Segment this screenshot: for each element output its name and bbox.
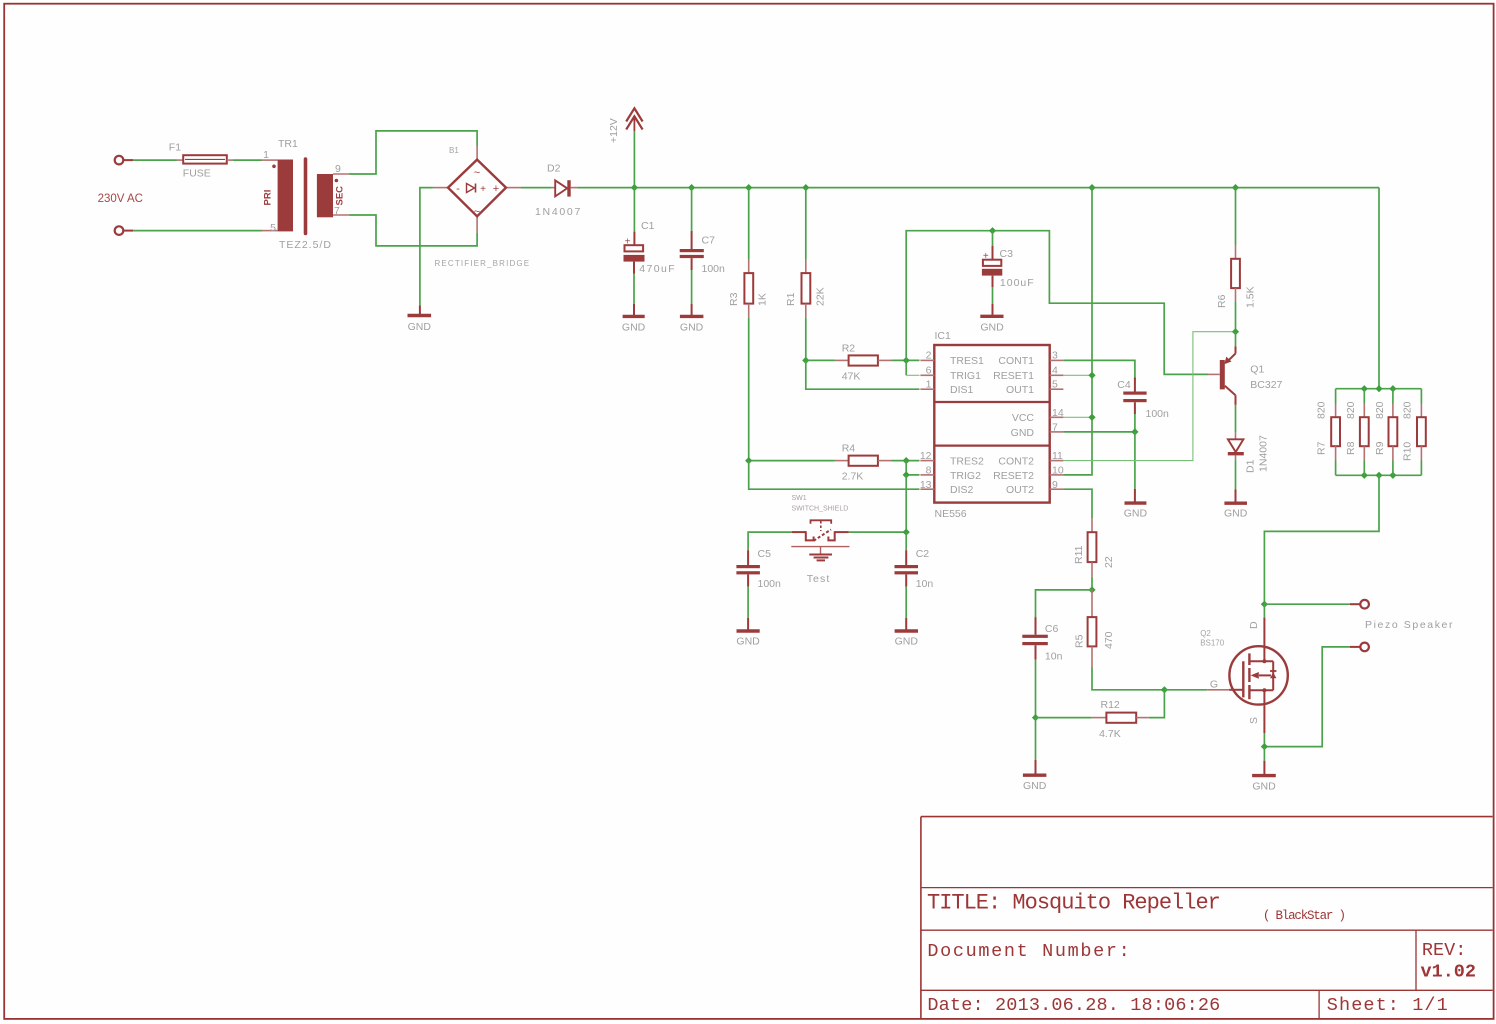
junction bottom bus R9 [1389,472,1396,479]
capacitor C4 [1117,378,1169,421]
svg-text:4: 4 [1052,365,1058,377]
wire junction to TRIG1 pin6 [905,360,907,375]
resistor R2 [835,343,892,383]
svg-text:GND: GND [1011,427,1035,439]
svg-text:10n: 10n [1045,651,1063,663]
terminal speaker 1 [1350,600,1369,609]
svg-text:OUT2: OUT2 [1006,484,1034,496]
wire D2 to rail [578,187,635,189]
svg-text:470uF: 470uF [639,263,676,275]
junction speaker1 [1261,601,1268,608]
junction C6-R12 [1032,714,1039,721]
junction R3-R4 [745,457,752,464]
wire pin7 to C4 vertical [1063,431,1135,433]
svg-text:Test: Test [807,573,831,585]
svg-text:820: 820 [1345,401,1357,419]
svg-text:R11: R11 [1073,545,1085,564]
junction C4-pin7 [1131,428,1138,435]
svg-text:4.7K: 4.7K [1099,728,1121,740]
junction pin14 [1088,414,1095,421]
svg-text:D: D [1248,621,1260,629]
junction top bus R9 [1389,385,1396,392]
svg-text:Document Number:: Document Number: [927,941,1131,962]
junction top bus feed [1375,385,1382,392]
svg-text:GND: GND [1124,508,1148,520]
junction C3 top [989,227,996,234]
junction R1-R2 [802,357,809,364]
resistor R10 [1402,389,1426,476]
wire C7 to gnd [691,270,693,304]
svg-text:GND: GND [980,322,1004,334]
svg-text:Q2: Q2 [1200,629,1211,638]
ground Q2 [1252,761,1276,793]
svg-text:CONT1: CONT1 [998,355,1034,367]
svg-text:RESET2: RESET2 [993,470,1034,482]
svg-text:TRIG1: TRIG1 [950,370,981,382]
transformer TR1 [262,138,349,251]
wire bank bottom to speaker junction [1264,475,1379,604]
svg-text:3: 3 [1052,350,1058,362]
svg-text:6: 6 [926,365,932,377]
svg-text:9: 9 [335,163,341,175]
pin 7 GND [1011,422,1064,440]
svg-text:230V AC: 230V AC [98,193,143,205]
wire pin4 to vertical [1063,374,1092,376]
svg-text:Piezo Speaker: Piezo Speaker [1365,619,1454,631]
svg-text:REV:: REV: [1422,940,1466,961]
svg-text:TRES1: TRES1 [950,355,984,367]
svg-text:GND: GND [1224,508,1248,520]
pin 14 VCC [1012,407,1064,424]
svg-text:RECTIFIER_BRIDGE: RECTIFIER_BRIDGE [435,259,531,268]
svg-text:PRI: PRI [263,190,274,206]
svg-text:Date: 2013.06.28. 18:06:26: Date: 2013.06.28. 18:06:26 [927,995,1220,1016]
svg-text:100uF: 100uF [1000,277,1035,289]
junction R11-R5-C6 [1088,586,1095,593]
wire rail to R3 [748,188,750,259]
ground D1 [1224,490,1248,520]
svg-text:VCC: VCC [1012,412,1035,424]
ground C3 [980,304,1004,334]
junction pin4 [1088,372,1095,379]
svg-text:C7: C7 [702,235,716,247]
wire fuse to TR1 pin1 [233,159,262,161]
svg-text:GND: GND [408,321,432,333]
wire Q2 source to junction [1263,733,1265,747]
wire bank top bus [1336,388,1422,390]
wire D1 to gnd [1235,460,1237,489]
svg-text:7: 7 [1052,422,1058,434]
wire junction to gnd [1035,718,1037,760]
terminal X1-1 [115,156,134,165]
wire R1 to DIS1 [806,360,920,389]
svg-text:SEC: SEC [335,186,346,206]
wire rail to R1 [805,188,807,259]
wire C3 net from junction up and right to Q1 base [906,231,1208,375]
svg-text:R4: R4 [842,443,856,455]
wire junction to speaker terminal 1 [1264,603,1350,605]
svg-text:GND: GND [1252,781,1276,793]
wire bank bottom bus [1336,474,1422,476]
wire junction to C6 [1036,590,1093,617]
svg-text:FUSE: FUSE [183,168,211,180]
junction rail-C7 [688,184,695,191]
wire R12 left [1036,717,1092,719]
wire bridge minus to GND [420,188,433,306]
wire C6 to R12 junction [1035,660,1037,718]
svg-text:SW1: SW1 [792,495,807,502]
svg-text:820: 820 [1374,401,1386,419]
title block [921,817,1493,1019]
ground C6 [1023,760,1047,792]
svg-text:100n: 100n [1146,408,1170,420]
wire switch row left to C5 [748,532,792,550]
resistor R11 [1073,518,1115,577]
svg-text:820: 820 [1402,401,1414,419]
wire C3 to gnd [992,287,994,304]
svg-text:RESET1: RESET1 [993,370,1034,382]
wire C2 to gnd [905,587,907,618]
wire speaker junction down to Q2 drain [1263,604,1265,617]
svg-text:R1: R1 [785,292,797,306]
svg-text:Q1: Q1 [1250,363,1264,375]
wire terminal2 to TR1 pin5 [133,230,262,232]
wire main +12V rail [634,187,1379,189]
svg-text:IC1: IC1 [935,330,952,342]
ground C7 [680,304,704,334]
svg-text:S: S [1248,717,1260,724]
svg-text:470: 470 [1103,631,1115,649]
wire speaker terminal 2 to Q2 source [1264,647,1350,747]
pin 9 OUT2 [1006,479,1063,496]
wire rail to C7 [691,188,693,231]
junction gate row [1161,686,1168,693]
svg-text:CONT2: CONT2 [998,455,1034,467]
wire rail corner down to resistor bank [1378,188,1380,389]
resistor R7 [1316,389,1341,476]
svg-text:100n: 100n [758,578,782,590]
wire junction down to C2 [905,532,907,550]
svg-text:8: 8 [926,465,932,477]
wire Q1 collector to D1 [1235,405,1237,433]
svg-text:TRIG2: TRIG2 [950,470,981,482]
junction rail-C1 [631,184,638,191]
wire pin8 junction down to switch row [905,475,907,532]
wire junction to gnd [1263,747,1265,761]
svg-text:1.5K: 1.5K [1245,286,1257,308]
wire junction down to R12 right [1149,690,1165,718]
wire +12V vertical to pin10 [1063,188,1092,475]
wire R2 right to pin2 [892,359,920,361]
capacitor C2 [895,548,934,590]
pin 3 CONT1 [998,350,1063,368]
svg-text:( BlackStar ): ( BlackStar ) [1263,909,1345,923]
svg-text:12: 12 [920,450,932,462]
svg-text:+: + [983,251,989,262]
svg-text:47K: 47K [842,371,861,383]
wire pin14 to vertical [1063,416,1092,418]
svg-text:100n: 100n [702,263,726,275]
pin 8 TRIG2 [920,465,981,483]
junction bottom bus R8 [1361,472,1368,479]
svg-text:5: 5 [1052,379,1058,391]
svg-text:C4: C4 [1117,379,1131,391]
wire pin3 to C4 [1063,360,1135,377]
svg-text:5: 5 [270,222,276,234]
svg-text:+: + [480,184,486,195]
wire switch right to C2 junction [849,531,906,533]
svg-text:v1.02: v1.02 [1421,962,1477,983]
wire junction to Q2 gate [1164,689,1207,691]
resistor R12 [1092,699,1149,740]
pin 4 RESET1 [993,365,1063,383]
svg-text:1N4007: 1N4007 [1258,435,1270,472]
svg-text:TRES2: TRES2 [950,455,984,467]
svg-text:10n: 10n [916,578,934,590]
svg-text:R10: R10 [1402,442,1414,461]
wire pin11 to R6 junction [1063,332,1235,461]
IC op-amp/timer IC1 NE556 [934,330,1049,520]
svg-text:7: 7 [334,205,340,217]
svg-text:C5: C5 [758,548,772,560]
svg-text:R2: R2 [842,343,856,355]
svg-text:DIS1: DIS1 [950,384,974,396]
junction rail-R6 [1232,184,1239,191]
pin 12 TRES2 [920,450,984,467]
wire R5 bottom to gate row [1092,667,1164,690]
resistor R5 [1074,590,1116,667]
resistor R4 [835,443,892,483]
pin 1 DIS1 [920,379,973,397]
junction pin8 [903,471,910,478]
svg-text:10: 10 [1052,465,1064,477]
wire R4 row left [749,460,835,462]
svg-text:TITLE: Mosquito Repeller: TITLE: Mosquito Repeller [927,891,1220,916]
svg-text:R5: R5 [1074,634,1086,648]
svg-text:R7: R7 [1316,441,1328,455]
junction top bus R8 [1361,385,1368,392]
wire R1 to R2 junction [805,318,807,361]
terminal X1-2 [115,226,134,235]
svg-text:C6: C6 [1045,623,1059,635]
svg-text:+12V: +12V [608,118,620,143]
svg-text:TEZ2.5/D: TEZ2.5/D [279,239,332,251]
transistor Q2 BS170 [1200,618,1288,733]
svg-text:1: 1 [926,379,932,391]
svg-text:820: 820 [1316,401,1328,419]
junction Q2 source [1261,743,1268,750]
svg-text:14: 14 [1052,407,1064,419]
resistor R6 [1216,188,1257,308]
pin 6 TRIG1 [920,365,981,383]
terminal speaker 2 [1350,643,1369,652]
junction R6-emitter-pin11 [1232,328,1239,335]
svg-text:BC327: BC327 [1250,379,1282,391]
wire junction down to gnd [1134,432,1136,489]
resistor R9 [1374,389,1398,476]
ground C2 [895,618,919,648]
wire R11 to junction [1091,577,1093,590]
svg-text:R3: R3 [728,292,740,306]
svg-text:TR1: TR1 [278,138,298,150]
capacitor C6 [1022,617,1062,663]
resistor R8 [1345,389,1369,476]
svg-text:-: - [456,183,460,195]
svg-text:B1: B1 [449,146,459,155]
svg-text:1K: 1K [757,293,769,306]
junction R2-pin2-C3net [903,357,910,364]
svg-text:C3: C3 [1000,248,1014,260]
pin 5 OUT1 [1006,379,1063,397]
wire bridge plus to D2 [521,187,551,189]
capacitor C5 [736,548,781,590]
svg-text:~: ~ [474,167,480,179]
ground C5 [736,618,760,648]
supply +12V arrow [608,108,643,187]
wire R4 right to pin12 [892,460,920,462]
junction R4-pin12 [903,457,910,464]
svg-text:1N4007: 1N4007 [535,206,582,218]
svg-text:GND: GND [736,636,760,648]
rectifier bridge B1 [433,146,530,268]
ground bridge [408,305,432,333]
svg-text:GND: GND [1023,780,1047,792]
wire R2 left [806,359,835,361]
svg-text:C2: C2 [916,548,930,560]
wire R6 to emitter junction [1235,302,1237,332]
svg-text:13: 13 [920,479,932,491]
ground C1 [622,304,646,334]
svg-text:R9: R9 [1374,441,1386,455]
svg-text:BS170: BS170 [1200,639,1225,648]
pin 11 CONT2 [998,450,1063,467]
svg-text:~: ~ [474,206,480,218]
pin 13 DIS2 [920,479,974,496]
wire terminal1 to fuse [133,159,176,161]
svg-text:+: + [493,183,499,195]
wire TR1 sec7 to bridge bottom [349,215,477,246]
svg-text:D1: D1 [1245,459,1257,473]
wire junction to pin8 [906,461,919,475]
svg-text:2.7K: 2.7K [842,471,864,483]
svg-text:Sheet: 1/1: Sheet: 1/1 [1327,995,1449,1016]
svg-text:R8: R8 [1345,441,1357,455]
junction rail-IC supply [1088,184,1095,191]
junction bottom bus feed [1375,472,1382,479]
resistor R3 [728,259,769,318]
fuse F1 [169,142,233,180]
svg-text:F1: F1 [169,142,181,154]
junction rail-R1 [802,184,809,191]
svg-text:+: + [625,237,631,248]
svg-text:R12: R12 [1101,699,1120,711]
junction switch-C2 [903,529,910,536]
svg-text:9: 9 [1052,479,1058,491]
wire R3 junction to DIS2 [749,461,920,490]
svg-text:SWITCH_SHIELD: SWITCH_SHIELD [792,506,849,513]
svg-text:GND: GND [895,636,919,648]
wire C5 to gnd [747,587,749,618]
svg-text:D2: D2 [547,163,561,175]
wire C4 to pin7 junction [1134,414,1136,432]
svg-text:GND: GND [622,322,646,334]
svg-text:1: 1 [263,149,269,161]
transistor Q1 BC327 [1208,332,1283,405]
svg-text:11: 11 [1052,450,1063,462]
junction rail-R3 [745,184,752,191]
switch SW1 [791,495,849,585]
diode D1 [1228,432,1270,473]
svg-text:NE556: NE556 [935,508,967,520]
svg-text:2: 2 [926,350,932,362]
svg-text:22K: 22K [815,287,827,306]
svg-text:GND: GND [680,322,704,334]
svg-text:R6: R6 [1216,294,1228,308]
resistor R1 [785,259,827,318]
svg-text:C1: C1 [641,220,655,232]
pin 2 TRES1 [920,350,984,368]
capacitor C7 [680,231,725,275]
wire pin9 to R11 [1063,489,1092,518]
svg-text:22: 22 [1103,556,1115,568]
wire R3 to R4 row [748,318,750,461]
capacitor C1 [624,220,677,275]
pin 10 RESET2 [993,465,1064,483]
wire C1 to gnd [633,274,635,304]
capacitor C3 [982,231,1035,289]
svg-text:G: G [1210,679,1218,691]
ground C4 [1124,489,1148,520]
svg-text:DIS2: DIS2 [950,484,974,496]
wire TR1 sec9 to bridge top [349,131,477,174]
wire rail to C1 [633,188,635,232]
svg-text:OUT1: OUT1 [1006,384,1034,396]
diode D2 [535,163,582,219]
